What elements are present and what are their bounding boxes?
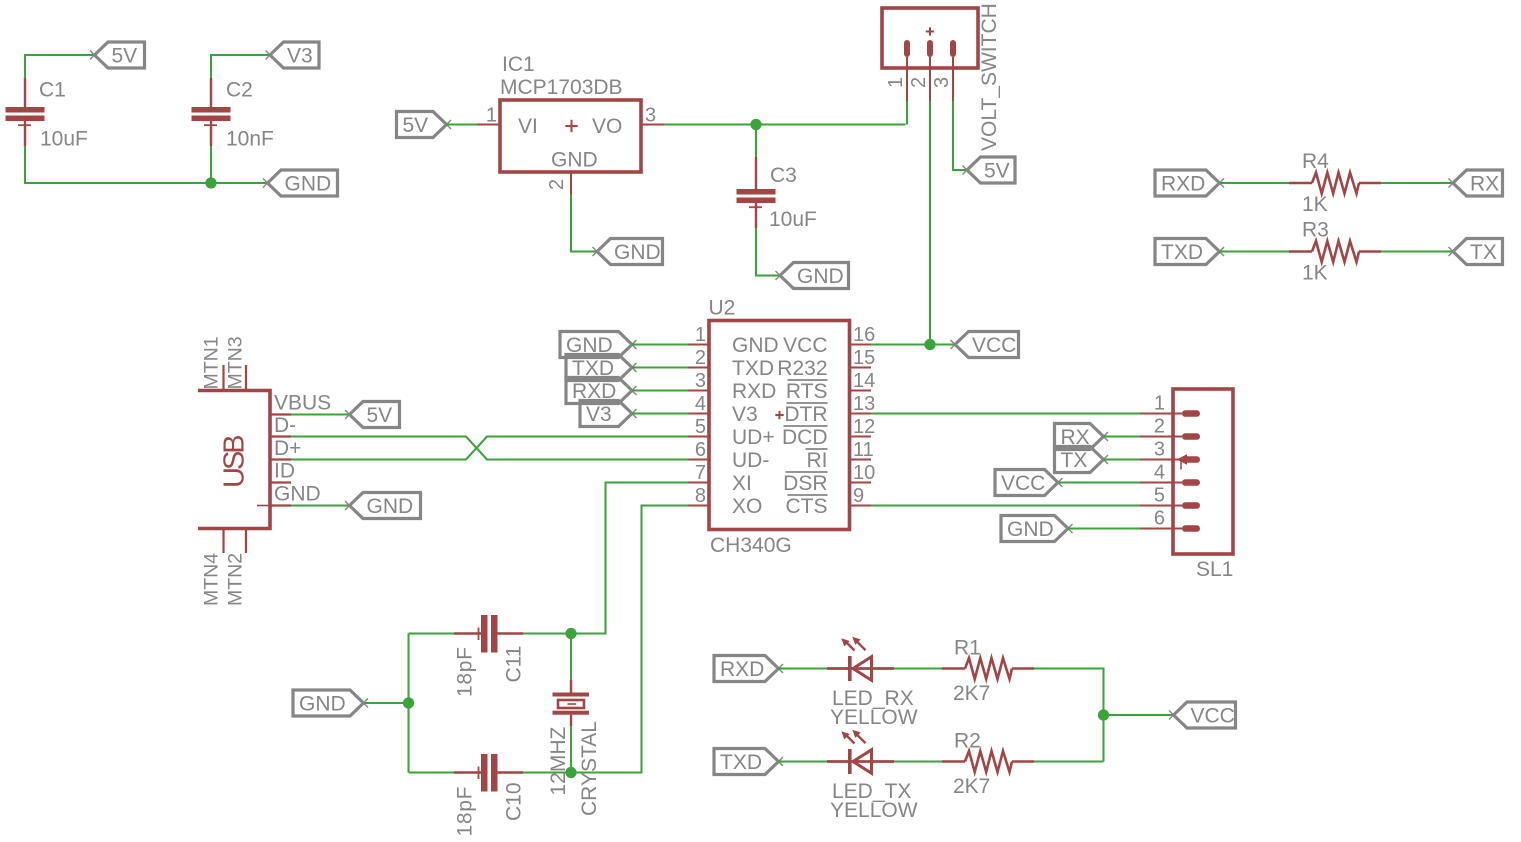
svg-text:VO: VO [592, 115, 622, 138]
svg-text:CH340G: CH340G [710, 534, 792, 557]
node flag TXD (LED_TX) [714, 749, 783, 775]
label R2 [954, 730, 981, 753]
VOLT_SWITCH pad 2 [927, 40, 933, 57]
svg-text:R3: R3 [1302, 219, 1329, 242]
svg-text:D-: D- [274, 414, 296, 437]
wire TXD flag to LED_TX [779, 760, 828, 762]
USB pin ID [270, 460, 295, 483]
U2 pin 15 R232 [777, 347, 875, 380]
ground flag GND (SL1 pin6) [1001, 516, 1073, 542]
svg-text:VOLT_SWITCH: VOLT_SWITCH [978, 3, 1001, 151]
wire RX flag to SL1 pin2 [1104, 435, 1141, 437]
capacitor C11 [454, 615, 523, 653]
svg-text:2: 2 [1154, 416, 1165, 438]
svg-text:12: 12 [853, 416, 875, 438]
junction XI/C11/crystal [565, 628, 576, 639]
wire VO net [664, 123, 906, 125]
svg-text:5: 5 [1154, 485, 1165, 507]
VOLT_SWITCH pin 2 [908, 57, 930, 101]
USB pin D+ [270, 437, 301, 460]
label C11 [503, 646, 526, 683]
svg-text:GND: GND [367, 495, 414, 518]
resistor R3 [1289, 241, 1381, 262]
label R4 [1302, 150, 1329, 173]
svg-text:GND: GND [614, 241, 661, 264]
label CRYSTAL [578, 721, 601, 816]
svg-text:R232: R232 [777, 357, 827, 380]
svg-text:C2: C2 [226, 79, 253, 102]
label LED_RX [832, 687, 914, 710]
IC1 pin 3 VO [641, 105, 664, 127]
ground flag GND (crystal) [293, 690, 368, 716]
svg-text:VCC: VCC [972, 334, 1016, 357]
svg-text:18pF: 18pF [454, 646, 477, 697]
U2 pin 16 VCC [783, 324, 875, 357]
wire VO to C3 [755, 125, 757, 158]
label VOLT_SWITCH [978, 3, 1001, 151]
U2 pin 11 RI [806, 439, 874, 472]
svg-text:RXD: RXD [720, 658, 764, 681]
svg-text:15: 15 [853, 347, 875, 369]
svg-text:VCC: VCC [783, 334, 827, 357]
value 2K7 (R2) [953, 775, 990, 798]
label MTN3 [225, 336, 247, 389]
svg-text:V3: V3 [732, 403, 758, 426]
USB pin MTN1 [222, 365, 224, 391]
svg-text:GND: GND [285, 173, 332, 196]
svg-text:3: 3 [931, 77, 953, 88]
SL1 pin 6 [1140, 508, 1200, 532]
junction C1-C2 GND [205, 177, 216, 188]
label MTN2 [225, 553, 247, 606]
svg-text:5V: 5V [367, 404, 393, 427]
IC1 origin cross [565, 120, 577, 132]
svg-text:TXD: TXD [1161, 241, 1203, 264]
VOLT_SWITCH pin 3 [931, 57, 953, 101]
svg-text:7: 7 [695, 462, 706, 484]
svg-text:USB: USB [219, 436, 251, 488]
IC1 VI label [518, 115, 538, 138]
USB pin D- [270, 414, 296, 437]
label C1 [39, 79, 66, 102]
svg-text:13: 13 [853, 393, 875, 415]
svg-text:4: 4 [695, 393, 706, 415]
svg-text:1: 1 [885, 77, 907, 88]
resistor R1 [942, 658, 1034, 679]
power flag VCC (SL1 pin4) [995, 470, 1063, 496]
VOLT_SWITCH pad 1 [904, 40, 910, 57]
value MCP1703DB [500, 76, 623, 99]
svg-text:VBUS: VBUS [274, 392, 331, 415]
ground flag GND (USB) [345, 493, 421, 519]
connector SL1 body [1173, 389, 1233, 554]
wire R4 to RX [1381, 182, 1453, 184]
svg-text:MTN3: MTN3 [225, 336, 247, 389]
svg-text:10: 10 [853, 462, 875, 484]
svg-text:GND: GND [1007, 518, 1054, 541]
U2 pin 12 DCD [782, 416, 875, 449]
label C2 [226, 79, 253, 102]
svg-text:3: 3 [695, 370, 706, 392]
value CH340G [710, 534, 792, 557]
wire C10 to XO junction [523, 771, 571, 773]
wire TX flag to SL1 pin3 [1104, 458, 1141, 460]
USB pin MTN3 [245, 365, 247, 391]
capacitor C2 [192, 78, 231, 146]
op-amp IC1 MCP1703DB body [500, 100, 641, 172]
U2 pin 4 V3 [688, 393, 758, 426]
svg-text:3: 3 [645, 105, 656, 127]
label IC1 [502, 53, 535, 76]
label MTN1 [201, 336, 223, 389]
svg-text:14: 14 [853, 370, 875, 392]
node flag RX (right) [1449, 170, 1503, 196]
wire XI net [571, 483, 688, 634]
U2 pin 5 UD+ [688, 416, 775, 449]
svg-text:VI: VI [518, 115, 538, 138]
power flag VCC (LED block) [1169, 702, 1236, 728]
wire GND net (C1/C2 bottom) [25, 146, 268, 183]
svg-text:5: 5 [695, 416, 706, 438]
node flag RX (SL1 pin2) [1055, 424, 1109, 450]
svg-text:10uF: 10uF [40, 128, 88, 151]
wire VBUS to 5V [291, 413, 350, 415]
value 12MHZ [547, 726, 570, 795]
svg-text:MCP1703DB: MCP1703DB [500, 76, 623, 99]
svg-text:D+: D+ [274, 437, 301, 460]
U2 pin 6 UD- [688, 439, 769, 472]
USB pin MTN4 [222, 529, 224, 554]
value YELLOW (LED_TX) [830, 799, 918, 822]
svg-text:1: 1 [695, 324, 706, 346]
value 18pF (C10) [454, 786, 477, 837]
svg-text:8: 8 [695, 485, 706, 507]
svg-text:1K: 1K [1302, 262, 1328, 285]
U2 pin 7 XI [688, 462, 752, 495]
connector USB frame [198, 391, 270, 529]
svg-text:TX: TX [1470, 241, 1497, 264]
svg-text:GND: GND [274, 483, 321, 506]
wire IC1 pin2 to GND [571, 195, 597, 252]
wire LED_RX to R1 [894, 667, 942, 669]
svg-text:XI: XI [732, 472, 752, 495]
resistor R2 [942, 751, 1034, 772]
junction VO/C3 [750, 119, 761, 130]
svg-text:10nF: 10nF [226, 128, 274, 151]
ground flag GND (top-left) [263, 170, 338, 196]
svg-text:3: 3 [1154, 439, 1165, 461]
power flag 5V (top-left) [90, 42, 145, 68]
svg-text:C11: C11 [503, 646, 526, 683]
wire C11 to XI junction [523, 632, 571, 634]
capacitor C3 [737, 157, 776, 228]
wire XO net [571, 506, 688, 773]
wire U2 pin1 to GND flag [632, 343, 688, 345]
svg-text:VCC: VCC [1191, 705, 1235, 728]
svg-text:12MHZ: 12MHZ [547, 726, 570, 795]
wire VOLT_SWITCH pin1 to VO net [906, 101, 908, 125]
node flag V3 (U2 pin4) [580, 401, 637, 427]
svg-text:RI: RI [807, 449, 828, 472]
SL1 pin 2 [1140, 416, 1200, 440]
power flag VCC (U2) [951, 332, 1019, 358]
USB pin VBUS [270, 392, 331, 415]
wire U2 pin4 to V3 flag [632, 412, 688, 414]
wire RXD to R4 [1220, 182, 1290, 184]
svg-text:2K7: 2K7 [953, 775, 990, 798]
label SL1 [1196, 558, 1233, 581]
value 1K (R3) [1302, 262, 1328, 285]
svg-text:MTN1: MTN1 [201, 336, 223, 389]
VOLT_SWITCH origin cross [926, 27, 934, 35]
label C10 [503, 782, 526, 821]
junction VCC [924, 339, 935, 350]
value 1K (R4) [1302, 193, 1328, 216]
junction GND riser [403, 697, 414, 708]
label R1 [954, 637, 981, 660]
USB pin MTN2 [245, 529, 247, 554]
svg-text:CTS: CTS [786, 495, 828, 518]
node flag TXD (R3 left) [1155, 239, 1224, 265]
svg-text:16: 16 [853, 324, 875, 346]
wire D+ to UD+ (crossover) [291, 437, 688, 460]
node flag GND (U2 pin1) [560, 332, 637, 358]
svg-text:2: 2 [695, 347, 706, 369]
wire VCC net (U2 pin16) [871, 343, 955, 345]
value 10uF (C1) [40, 128, 88, 151]
svg-text:TXD: TXD [720, 751, 762, 774]
svg-text:1: 1 [1154, 393, 1165, 415]
svg-text:5V: 5V [984, 160, 1010, 183]
label U2 [709, 297, 736, 320]
svg-text:2K7: 2K7 [953, 682, 990, 705]
svg-text:C10: C10 [503, 782, 526, 821]
svg-text:C3: C3 [770, 164, 797, 187]
IC1 pin 2 GND [546, 172, 571, 195]
value 2K7 (R1) [953, 682, 990, 705]
svg-text:GND: GND [732, 334, 779, 357]
node flag TXD (U2 pin2) [566, 355, 637, 381]
wire R2 to VCC junction [1034, 760, 1104, 762]
U2 pin 1 GND [688, 324, 779, 357]
svg-text:MTN4: MTN4 [201, 553, 223, 606]
wire V3 net (C2 top) [211, 55, 270, 78]
value 18pF (C11) [454, 646, 477, 697]
svg-text:CRYSTAL: CRYSTAL [578, 721, 601, 816]
wire TXD to R3 [1220, 250, 1290, 252]
VOLT_SWITCH pin 1 [885, 57, 907, 101]
svg-text:11: 11 [853, 439, 874, 461]
U2 pin 8 XO [688, 485, 762, 518]
svg-text:SL1: SL1 [1196, 558, 1233, 581]
wire GND riser [407, 634, 409, 773]
wire R3 to TX [1381, 250, 1453, 252]
svg-text:RXD: RXD [1161, 173, 1205, 196]
U2 pin 10 DSR [783, 462, 875, 495]
svg-text:6: 6 [695, 439, 706, 461]
label MTN4 [201, 553, 223, 606]
wire RXD flag to LED_RX [779, 667, 828, 669]
ic U2 CH340G body [709, 321, 850, 530]
wire C10 left to GND riser [409, 771, 455, 773]
IC1 GND label [551, 149, 598, 172]
svg-text:10uF: 10uF [769, 208, 817, 231]
svg-text:4: 4 [1154, 462, 1165, 484]
capacitor C1 [6, 78, 45, 146]
led LED_RX [827, 637, 894, 681]
svg-text:1: 1 [486, 105, 497, 127]
svg-text:VCC: VCC [1001, 472, 1045, 495]
svg-text:V3: V3 [287, 45, 313, 68]
led LED_TX [827, 730, 894, 774]
USB pin GND [270, 483, 321, 506]
wire VCC flag to SL1 pin4 [1058, 481, 1140, 483]
svg-text:DSR: DSR [783, 472, 827, 495]
wire crystal bottom lead [570, 726, 572, 773]
power flag 5V (IC1 input) [397, 112, 452, 138]
svg-text:C1: C1 [39, 79, 66, 102]
svg-text:6: 6 [1154, 508, 1165, 530]
label LED_TX [832, 780, 911, 803]
wire USB GND to GND flag [291, 504, 350, 506]
value 10nF (C2) [226, 128, 274, 151]
wire C3 to GND [756, 228, 780, 276]
svg-text:R1: R1 [954, 637, 981, 660]
svg-text:YELLOW: YELLOW [830, 706, 918, 729]
wire LED_TX to R2 [894, 760, 942, 762]
USB origin tick [257, 505, 269, 507]
svg-text:RTS: RTS [786, 380, 828, 403]
svg-text:18pF: 18pF [454, 786, 477, 837]
svg-text:R2: R2 [954, 730, 981, 753]
power flag V3 (top-left) [266, 42, 320, 68]
IC1 pin 1 VI [477, 105, 500, 127]
svg-text:UD-: UD- [732, 449, 769, 472]
svg-text:2: 2 [546, 179, 568, 190]
svg-text:DTR: DTR [784, 403, 827, 426]
SL1 pin 1 [1140, 393, 1200, 417]
SL1 pin 5 [1140, 485, 1200, 509]
U2 pin 3 RXD [688, 370, 776, 403]
U2 origin cross [775, 411, 783, 419]
svg-text:UD+: UD+ [732, 426, 775, 449]
wire U2 pin3 to RXD flag [632, 389, 688, 391]
U2 pin 2 TXD [688, 347, 774, 380]
svg-text:IC1: IC1 [502, 53, 535, 76]
ground flag GND (C3) [776, 263, 849, 289]
IC1 VO label [592, 115, 622, 138]
node flag RXD (LED_RX) [714, 656, 783, 682]
U2 pin 14 RTS [786, 370, 875, 403]
svg-text:R4: R4 [1302, 150, 1329, 173]
svg-text:TXD: TXD [732, 357, 774, 380]
svg-text:GND: GND [551, 149, 598, 172]
svg-text:DCD: DCD [782, 426, 828, 449]
wire D- to UD- (crossover) [291, 437, 688, 460]
svg-text:TX: TX [1061, 449, 1088, 472]
U2 pin 9 CTS [786, 485, 872, 518]
power flag 5V (USB VBUS) [345, 402, 400, 428]
wire 5V to IC1 pin1 [447, 123, 478, 125]
svg-text:RXD: RXD [732, 380, 776, 403]
svg-text:1K: 1K [1302, 193, 1328, 216]
junction XO/C10/crystal [565, 767, 576, 778]
svg-text:V3: V3 [586, 403, 612, 426]
value 10uF (C3) [769, 208, 817, 231]
node flag TX (right) [1449, 239, 1503, 265]
svg-text:XO: XO [732, 495, 762, 518]
wire U2 pin2 to TXD flag [632, 366, 688, 368]
connector VOLT_SWITCH body [882, 8, 978, 68]
wire CTS to SL1 pin5 [871, 504, 1140, 506]
wire VOLT_SWITCH pin3 to 5V [953, 101, 967, 170]
wire 5V net (C1 top) [25, 55, 95, 78]
svg-text:RX: RX [1470, 173, 1499, 196]
svg-text:2: 2 [908, 77, 930, 88]
wire VOLT_SWITCH pin2 to VCC net [929, 101, 931, 345]
wire GND flag to SL1 pin6 [1068, 527, 1140, 529]
label USB [219, 436, 251, 488]
svg-text:5V: 5V [403, 114, 429, 137]
svg-text:MTN2: MTN2 [225, 553, 247, 606]
wire C11 left to GND riser [409, 632, 455, 634]
wire R1 to VCC junction [1034, 669, 1104, 762]
crystal Q1 12MHZ [553, 680, 590, 726]
svg-text:GND: GND [797, 265, 844, 288]
wire DTR to SL1 pin1 [871, 412, 1140, 414]
junction VCC (LED block) [1098, 709, 1109, 720]
capacitor C10 [454, 754, 523, 792]
svg-text:5V: 5V [112, 45, 138, 68]
wire VCC junction to flag [1104, 714, 1174, 716]
SL1 pin 4 [1140, 462, 1200, 486]
svg-text:9: 9 [853, 485, 864, 507]
svg-text:U2: U2 [709, 297, 736, 320]
svg-text:ID: ID [274, 460, 295, 483]
node flag RXD (R4 left) [1155, 170, 1224, 196]
wire GND flag to riser [364, 702, 409, 704]
resistor R4 [1289, 173, 1381, 194]
SL1 pin 3 [1140, 439, 1200, 470]
value YELLOW (LED_RX) [830, 706, 918, 729]
power flag 5V (VOLT_SWITCH) [963, 157, 1016, 183]
U2 pin 13 DTR [784, 393, 875, 426]
node flag TX (SL1 pin3) [1055, 447, 1109, 473]
ground flag GND (IC1) [593, 239, 663, 265]
label R3 [1302, 219, 1329, 242]
VOLT_SWITCH pad 3 [950, 40, 956, 57]
node flag RXD (U2 pin3) [566, 378, 637, 404]
wire crystal top lead [570, 634, 572, 681]
svg-text:GND: GND [299, 693, 346, 716]
label C3 [770, 164, 797, 187]
svg-text:YELLOW: YELLOW [830, 799, 918, 822]
